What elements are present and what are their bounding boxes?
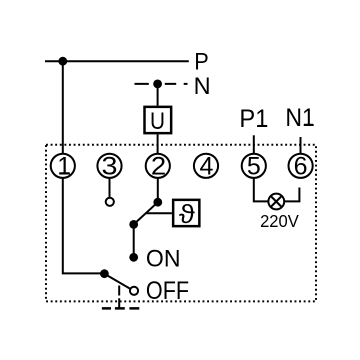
svg-text:2: 2	[151, 153, 166, 181]
svg-text:3: 3	[102, 153, 118, 181]
svg-text:4: 4	[200, 153, 214, 181]
wire N dashed line	[135, 83, 188, 85]
wire N1 stub	[300, 137, 302, 154]
wire N to U box	[157, 84, 159, 106]
svg-text:5: 5	[247, 153, 261, 181]
wire P1 stub	[253, 135, 255, 154]
svg-text:ϑ: ϑ	[179, 199, 196, 229]
dashed enclosure border	[46, 145, 316, 302]
node OFF pivot	[100, 269, 109, 278]
svg-text:P1: P1	[239, 105, 268, 133]
wire link to thermostat	[146, 212, 172, 214]
terminal 5	[242, 154, 266, 178]
node switch common	[153, 198, 162, 207]
dashed actuator link to ground	[118, 286, 120, 309]
contact open circle OFF	[130, 287, 138, 295]
node blade end	[129, 220, 138, 229]
ground symbol	[102, 307, 139, 310]
svg-text:N1: N1	[285, 104, 315, 132]
terminal 6	[289, 154, 313, 178]
thermostat box	[173, 200, 199, 226]
svg-text:U: U	[150, 108, 165, 135]
svg-text:1: 1	[57, 153, 71, 181]
wire blade to ON contact	[133, 224, 135, 257]
component U box	[145, 107, 172, 133]
node N junction	[153, 80, 162, 89]
wire P to terminal 1	[62, 61, 64, 154]
svg-text:220V: 220V	[260, 211, 299, 231]
wire lamp to terminal 6 side	[285, 188, 299, 202]
svg-text:OFF: OFF	[146, 277, 189, 305]
wire terminal 1 down and across	[63, 178, 105, 274]
contact open circle under 3	[106, 198, 114, 206]
OFF switch blade	[104, 274, 129, 289]
thermostat switch blade	[134, 202, 158, 224]
svg-text:ON: ON	[146, 246, 181, 273]
terminal 3	[97, 154, 121, 178]
wire P line	[45, 60, 189, 62]
svg-text:N: N	[194, 73, 211, 100]
svg-text:6: 6	[294, 153, 308, 181]
wire terminal 2 to switch common	[157, 178, 159, 202]
wire terminal 3 stub	[109, 178, 111, 197]
terminal 2	[146, 154, 170, 178]
node ON contact	[129, 253, 138, 262]
terminal 1	[51, 154, 75, 178]
node P junction	[58, 57, 67, 66]
wire U box to terminal 2	[157, 134, 159, 153]
terminal 4	[194, 154, 218, 178]
lamp 220V	[268, 194, 284, 210]
wire terminal 5 to lamp	[254, 178, 268, 202]
svg-text:P: P	[194, 48, 209, 75]
